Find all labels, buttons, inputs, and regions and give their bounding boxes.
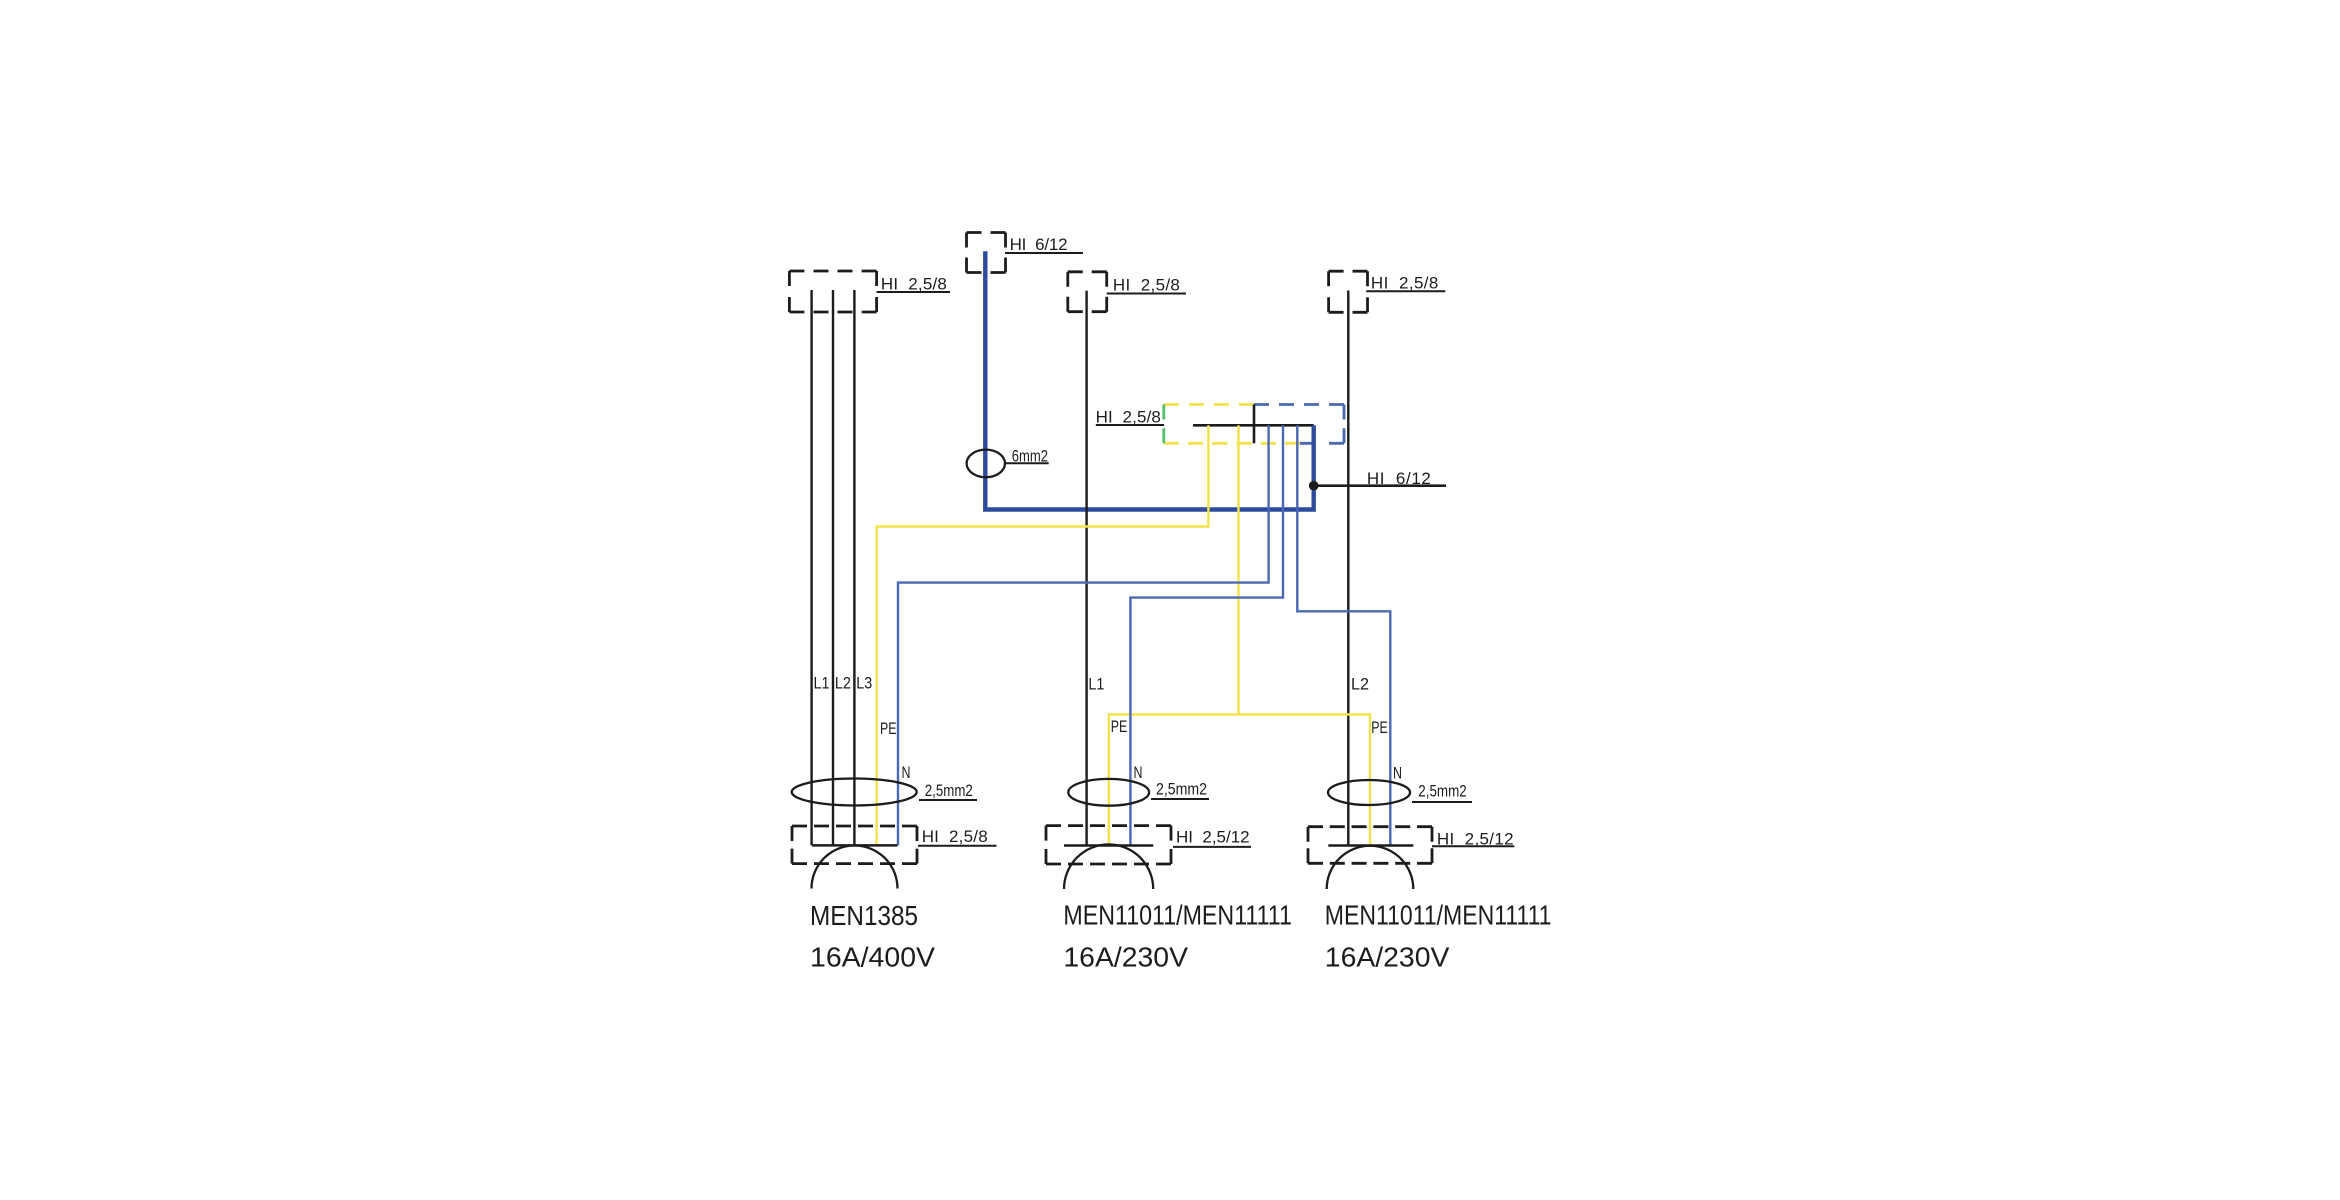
junction box top edge N-blue dashes: [1254, 403, 1344, 406]
socket X1 terminal line: [812, 844, 898, 847]
leader underline HI 2,5/8 (junction box): [1096, 424, 1164, 426]
conduit bracket HI 6/12 (top feed): [967, 233, 1006, 273]
socket X3 terminal line: [1328, 844, 1413, 847]
svg-text:2,5mm2: 2,5mm2: [1156, 780, 1207, 799]
conduit bracket HI 2,5/8 (middle): [1068, 272, 1107, 312]
leader underline 2,5mm2 (left): [919, 799, 977, 801]
leader underline HI 2,5/12 (middle socket): [1173, 846, 1251, 848]
svg-text:PE: PE: [880, 719, 897, 738]
svg-text:HI 2,5/8: HI 2,5/8: [1096, 408, 1161, 427]
svg-text:MEN11011/MEN11111: MEN11011/MEN11111: [1063, 899, 1292, 930]
svg-text:16A/400V: 16A/400V: [810, 941, 936, 972]
svg-text:N: N: [902, 763, 911, 782]
socket conduit box left (dashed): [792, 826, 917, 864]
svg-text:N: N: [1393, 764, 1402, 783]
svg-text:L1: L1: [814, 674, 830, 693]
wire PE left socket (yellow): [877, 425, 1209, 845]
socket X3 arc: [1327, 846, 1414, 889]
conduit bracket HI 2,5/8 (left, 3-phase): [789, 271, 876, 312]
svg-text:MEN1385: MEN1385: [810, 900, 918, 931]
junction box divider (black T): [1253, 405, 1256, 444]
wire PE middle+right sockets (yellow): [1109, 425, 1370, 845]
wire 6mm2 feed (thick blue): [985, 251, 1313, 509]
leader underline HI 2,5/12 (right socket): [1432, 845, 1514, 847]
conduit bracket HI 2,5/8 (right): [1329, 271, 1368, 312]
svg-text:HI 2,5/8: HI 2,5/8: [922, 827, 988, 846]
svg-text:16A/230V: 16A/230V: [1325, 941, 1450, 972]
svg-text:HI 6/12: HI 6/12: [1010, 235, 1068, 254]
leader underline 6mm2: [1005, 462, 1049, 464]
socket conduit box middle (dashed): [1046, 826, 1171, 864]
node junction dot on 6mm2 feed: [1309, 481, 1319, 491]
svg-text:HI 2,5/12: HI 2,5/12: [1176, 828, 1250, 847]
svg-text:L2: L2: [1351, 675, 1369, 694]
cable marker ellipse middle socket: [1068, 779, 1149, 806]
svg-text:N: N: [1134, 763, 1143, 782]
wire L1 (middle socket): [1085, 291, 1087, 846]
leader underline 2,5mm2 (middle): [1151, 798, 1209, 800]
leader underline 2,5mm2 (right): [1412, 801, 1472, 803]
svg-text:HI 6/12: HI 6/12: [1367, 469, 1431, 488]
wire L3 (left socket): [853, 290, 855, 845]
leader underline HI 2,5/8 (left socket): [918, 845, 997, 847]
svg-text:HI 2,5/8: HI 2,5/8: [1113, 276, 1180, 295]
svg-text:16A/230V: 16A/230V: [1063, 941, 1188, 972]
svg-text:PE: PE: [1111, 717, 1128, 736]
socket conduit box right (dashed): [1308, 827, 1432, 864]
cable marker ellipse left socket: [792, 779, 917, 806]
wire N left socket (blue): [898, 425, 1269, 845]
svg-text:HI 2,5/8: HI 2,5/8: [1371, 274, 1439, 293]
svg-text:L2: L2: [835, 674, 851, 693]
leader line HI 6/12 (right): [1314, 484, 1446, 487]
wire N middle socket (blue): [1130, 425, 1283, 845]
junction box bottom edge N-blue dashes: [1300, 442, 1344, 445]
svg-text:L3: L3: [856, 674, 872, 693]
cable marker ellipse right socket: [1328, 780, 1410, 805]
wire N right socket (blue): [1297, 425, 1390, 845]
svg-text:L1: L1: [1088, 675, 1104, 694]
junction box right edge N-blue dashes: [1343, 405, 1346, 444]
socket X1 arc: [812, 846, 898, 889]
leader underline HI 6/12 (top feed): [1005, 252, 1083, 254]
leader underline HI 2,5/8 (right): [1366, 290, 1445, 292]
svg-text:PE: PE: [1371, 718, 1388, 737]
socket X2 terminal line: [1064, 844, 1153, 847]
socket X2 arc: [1064, 844, 1153, 889]
wire L1 (left socket): [810, 290, 812, 845]
terminal bar in junction box: [1193, 424, 1314, 427]
svg-text:HI 2,5/8: HI 2,5/8: [881, 275, 947, 294]
junction box top edge PE-yellow dashes: [1164, 403, 1254, 406]
leader underline HI 2,5/8 (middle): [1107, 293, 1186, 295]
svg-text:MEN11011/MEN11111: MEN11011/MEN11111: [1325, 899, 1552, 930]
svg-text:2,5mm2: 2,5mm2: [925, 781, 973, 800]
leader underline HI 2,5/8 (left): [877, 291, 950, 293]
cable marker ellipse 6mm2: [967, 450, 1005, 478]
svg-text:2,5mm2: 2,5mm2: [1418, 782, 1466, 801]
junction box bottom edge PE-yellow dashes: [1164, 442, 1300, 445]
wire L2 (right socket): [1347, 291, 1349, 846]
wire L2 (left socket): [832, 290, 834, 845]
junction box left edge PE-green dashes: [1162, 405, 1165, 444]
